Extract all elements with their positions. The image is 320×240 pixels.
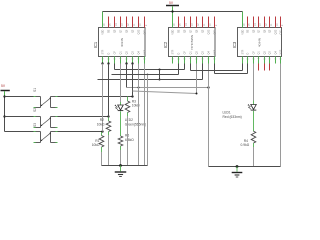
wire IC1 pin7 column — [138, 64, 140, 166]
junction top bus at IC2 VDD — [171, 10, 173, 12]
IC IC1 body (4094N) — [99, 28, 146, 57]
svg-text:CP: CP — [115, 51, 117, 55]
svg-text:IC1: IC1 — [93, 41, 98, 48]
junction rail row1 — [3, 95, 5, 97]
svg-text:4094N: 4094N — [258, 38, 262, 47]
junction net D at IC1 pin7 column — [138, 87, 140, 89]
svg-text:OE: OE — [248, 29, 250, 33]
resistor R1 10k — [101, 132, 103, 136]
svg-text:R4: R4 — [244, 139, 248, 143]
wire IC1 pin1 column — [102, 64, 104, 132]
wire net C to IC2 pin2 — [112, 74, 179, 76]
svg-text:IC2: IC2 — [163, 41, 168, 48]
svg-text:Red (633nm): Red (633nm) — [223, 115, 242, 119]
svg-text:OE: OE — [109, 29, 111, 33]
wire S1 out row1 — [58, 96, 133, 98]
power symbol 5V left — [1, 90, 10, 92]
junction net C at riser — [147, 74, 149, 76]
junction IC1 pin1 stub — [101, 62, 103, 64]
junction IC1 pin6 stub — [131, 62, 133, 64]
wire bottom-right ground rail — [209, 166, 281, 168]
junction net A branch — [159, 69, 161, 71]
svg-text:STR: STR — [103, 49, 105, 54]
svg-text:VSS: VSS — [281, 49, 283, 54]
ground symbol right — [236, 167, 238, 172]
wire R4 to bottom rail — [253, 147, 255, 167]
wire bottom-left ground rail — [102, 165, 148, 167]
wire 5V rail to S1 — [5, 96, 34, 98]
svg-text:IC3: IC3 — [232, 41, 237, 48]
IC1 top pins (pin16 VDD green, pins 15-9 red) — [102, 12, 104, 28]
wire jog net A to net B — [159, 70, 161, 80]
svg-text:STR: STR — [243, 49, 245, 54]
wire R1 to bottom rail — [101, 152, 103, 166]
junction IC1 pin2 stub — [107, 62, 109, 64]
pushbutton S3 — [36, 131, 41, 133]
LED LED2 — [118, 105, 124, 110]
wire net B to IC2 pin6 — [98, 79, 203, 81]
svg-text:CP: CP — [185, 51, 187, 55]
resistor R4 0.9k — [251, 131, 256, 143]
junction rail row2 — [3, 115, 5, 117]
wire LED1 to R4 — [253, 111, 255, 132]
wire IC1 pin4 column to LED2 — [120, 64, 122, 103]
wire IC3 pin3 column to LED1 — [253, 64, 255, 101]
svg-text:STR: STR — [173, 49, 175, 54]
svg-text:0.9kΩ: 0.9kΩ — [241, 143, 250, 147]
IC IC2 body (74HC595N) — [169, 28, 216, 57]
svg-text:4094N: 4094N — [120, 38, 124, 47]
wire 5V rail to S2 — [5, 116, 34, 118]
pushbutton S2 — [36, 116, 41, 118]
svg-text:OE: OE — [179, 29, 181, 33]
svg-text:QS2: QS2 — [276, 29, 278, 34]
IC3 bottom pins 1-8 (green stubs) — [242, 57, 244, 64]
wire R2 to bottom rail — [108, 135, 110, 166]
svg-text:10kΩ: 10kΩ — [97, 123, 105, 127]
svg-text:QS1: QS1 — [281, 29, 283, 34]
wire IC1 pin5 column to net D — [126, 64, 128, 88]
wire LED2 to R5 — [120, 111, 122, 136]
wire S2 out row2 — [58, 116, 109, 118]
svg-text:10kΩ: 10kΩ — [92, 143, 100, 147]
junction row2 at R2 column — [107, 115, 109, 117]
svg-text:VDD: VDD — [173, 29, 175, 34]
junction ground rail at R5 column — [119, 164, 122, 167]
junction row1 at IC1 pin6 column — [131, 95, 133, 97]
IC2 top pins (pin16 VDD green, pins 15-9 red) — [172, 12, 174, 28]
svg-text:74HC595N: 74HC595N — [190, 35, 194, 50]
power symbol 5V top — [166, 5, 179, 7]
wire 5V rail to S3 — [5, 131, 34, 133]
svg-text:CP: CP — [254, 51, 256, 55]
svg-text:QS1: QS1 — [215, 29, 217, 34]
wire IC1 pin6 column to row1 — [132, 64, 134, 97]
IC3 unconnected red stubs pins 4-6 — [258, 64, 260, 71]
wire net C riser — [147, 75, 149, 166]
svg-text:VDD: VDD — [243, 29, 245, 34]
resistor R2 10k — [108, 118, 110, 122]
junction IC1 pin5 stub — [125, 62, 127, 64]
ground symbol left — [120, 166, 122, 172]
svg-text:R2: R2 — [100, 118, 104, 122]
svg-text:LED2: LED2 — [125, 118, 133, 122]
junction row3 at R1 column — [101, 130, 103, 132]
wire net D to IC2 pin7 — [127, 87, 209, 89]
junction net E at IC2 pin5 — [196, 93, 198, 95]
junction bottom-right ground — [236, 165, 239, 168]
wire 5V top bus — [103, 11, 243, 13]
wire left 5V rail — [4, 97, 6, 132]
IC1 bottom pins 1-8 (green stubs) — [102, 57, 104, 64]
svg-text:VSS: VSS — [215, 49, 217, 54]
svg-text:S2: S2 — [33, 108, 37, 112]
wire net E from row1 junction to IC2 pin5 — [133, 91, 197, 94]
svg-text:QS2: QS2 — [139, 29, 141, 34]
svg-text:S3: S3 — [33, 123, 37, 127]
svg-text:VSS: VSS — [145, 49, 147, 54]
svg-text:S1: S1 — [33, 88, 37, 92]
wire IC2 pin7 column down — [208, 64, 210, 167]
LED LED1 — [251, 105, 257, 110]
IC IC3 body (4094N) — [238, 28, 282, 57]
junction net B branch — [159, 79, 161, 81]
IC2 bottom pins 1-8 (green stubs) — [172, 57, 174, 64]
wire R3 to bottom rail — [127, 116, 129, 166]
wire IC1 pin2 column — [108, 64, 110, 118]
resistor R3 10k — [127, 97, 129, 102]
wire net A IC1 pin3 to IC2 pin3 — [114, 64, 116, 70]
wire net G IC2 pin8 to IC3 pin2 — [214, 64, 216, 74]
pushbutton S1 — [36, 96, 41, 98]
junction net D at IC2 pin7 — [207, 86, 209, 88]
svg-text:LED1: LED1 — [223, 110, 231, 114]
wire net F IC2 pin4 to IC3 pin1 — [190, 64, 192, 71]
svg-text:QS1: QS1 — [145, 29, 147, 34]
wire IC3 pin8 column right edge — [280, 64, 282, 167]
svg-text:QS2: QS2 — [209, 29, 211, 34]
wire S3 out row3 — [58, 131, 103, 133]
resistor R5 6.8k — [118, 136, 123, 146]
IC3 top pins (pin16 VDD green, pins 15-9 red) — [242, 12, 244, 28]
wire R5 to bottom rail — [120, 150, 122, 166]
svg-text:6.8kΩ: 6.8kΩ — [125, 138, 134, 142]
svg-text:VDD: VDD — [103, 29, 105, 34]
wire IC1 pin8 column — [144, 64, 146, 166]
